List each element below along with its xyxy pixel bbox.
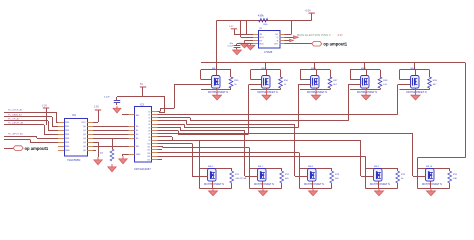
svg-text:MCHSMOSFET N: MCHSMOSFET N	[307, 91, 327, 94]
svg-text:+5E OP GE: +5E OP GE	[235, 178, 247, 180]
svg-text:+5.5V: +5.5V	[305, 10, 312, 13]
svg-text:5V: 5V	[140, 83, 143, 86]
svg-text:NC: NC	[275, 34, 279, 36]
svg-text:MCH7MOSFET N: MCH7MOSFET N	[204, 183, 224, 186]
svg-text:IC3: IC3	[140, 103, 145, 106]
svg-text:MCH7MOSFET N: MCH7MOSFET N	[254, 183, 274, 186]
svg-text:PC_LATCH_A3: PC_LATCH_A3	[8, 122, 24, 125]
svg-text:VDD: VDD	[259, 44, 264, 46]
svg-text:CD74HC4067: CD74HC4067	[134, 167, 151, 171]
svg-text:MCHSMOSFET N: MCHSMOSFET N	[357, 91, 377, 94]
svg-text:MCH7MOSFET N: MCH7MOSFET N	[422, 183, 442, 186]
svg-text:LT1636: LT1636	[264, 51, 273, 54]
svg-text:MAIN ELECTION PINS X: MAIN ELECTION PINS X	[297, 33, 331, 37]
svg-text:PC_DATA_A1: PC_DATA_A1	[8, 114, 22, 117]
svg-text:M5.4: M5.4	[361, 68, 367, 70]
svg-text:MCHSMOSFET N: MCHSMOSFET N	[406, 91, 426, 94]
svg-text:4 47: 4 47	[338, 33, 344, 37]
svg-text:M6.8: M6.8	[308, 166, 314, 168]
svg-text:0.1uF: 0.1uF	[228, 46, 234, 48]
svg-text:TR: TR	[259, 40, 262, 42]
svg-text:74HC595N: 74HC595N	[67, 158, 80, 162]
svg-text:VCO: VCO	[259, 37, 264, 39]
svg-text:-IN: -IN	[259, 34, 262, 36]
svg-text:OUT: OUT	[274, 44, 279, 46]
svg-text:4.99k: 4.99k	[258, 15, 265, 18]
svg-text:M6.10: M6.10	[426, 166, 433, 168]
svg-text:GND: GND	[65, 150, 70, 152]
svg-text:SIG: SIG	[136, 115, 140, 117]
svg-text:M6.6: M6.6	[208, 166, 214, 168]
svg-text:3.3V: 3.3V	[229, 26, 234, 28]
svg-text:PC_OE_A2: PC_OE_A2	[8, 118, 20, 121]
svg-text:op ampout1: op ampout1	[323, 41, 347, 46]
svg-text:M5.3: M5.3	[311, 68, 317, 70]
svg-text:MCHSMOSFET N: MCHSMOSFET N	[208, 91, 228, 94]
svg-text:PC_INPUT_A5: PC_INPUT_A5	[8, 132, 23, 135]
svg-text:IC2: IC2	[72, 114, 77, 117]
svg-text:M6.9: M6.9	[374, 166, 380, 168]
svg-text:MCH7MOSFET N: MCH7MOSFET N	[370, 183, 390, 186]
svg-text:PC_USCK_A0: PC_USCK_A0	[8, 109, 23, 112]
svg-text:VCC: VCC	[81, 122, 86, 124]
svg-text:2.5V: 2.5V	[94, 106, 99, 109]
svg-text:10E: 10E	[453, 178, 457, 180]
svg-text:MCH7MOSFET N: MCH7MOSFET N	[304, 183, 324, 186]
svg-text:M6.7: M6.7	[258, 166, 264, 168]
svg-text:EN: EN	[136, 146, 139, 148]
svg-text:op ampout1: op ampout1	[25, 146, 49, 151]
svg-text:3.3V: 3.3V	[42, 104, 47, 107]
svg-text:MCHSMOSFET N: MCHSMOSFET N	[257, 91, 277, 94]
svg-text:GND: GND	[136, 154, 141, 156]
svg-text:0.1uF: 0.1uF	[104, 96, 110, 98]
